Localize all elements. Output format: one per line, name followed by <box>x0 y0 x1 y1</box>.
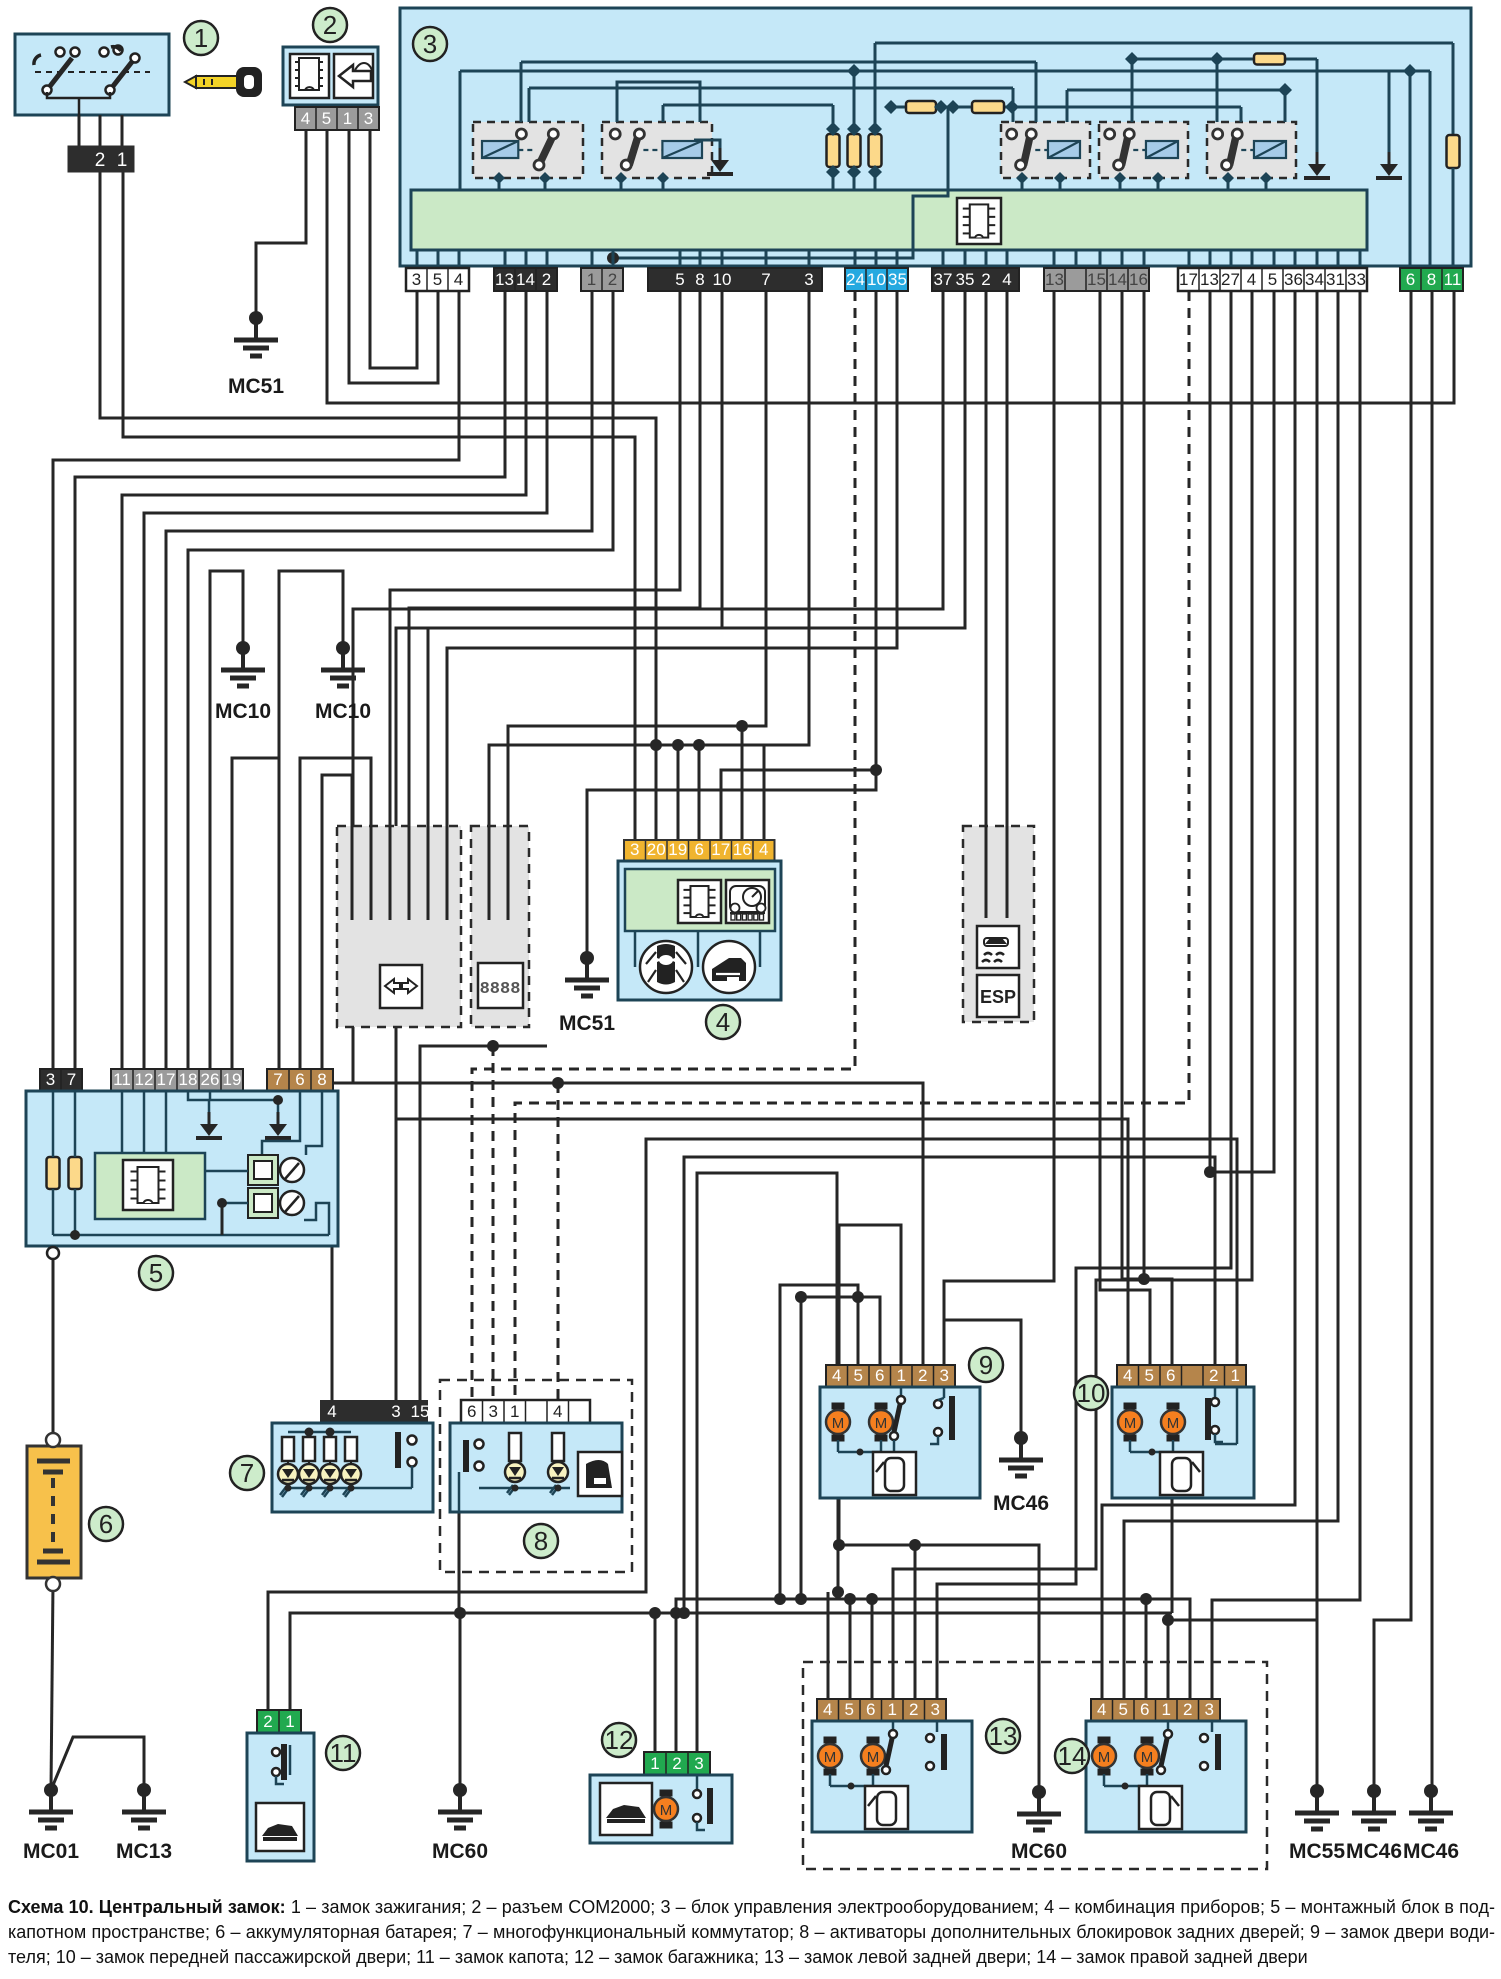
svg-text:8: 8 <box>317 1070 326 1089</box>
svg-text:14: 14 <box>1058 1741 1087 1771</box>
svg-text:13: 13 <box>989 1721 1018 1751</box>
svg-text:MC60: MC60 <box>1011 1840 1067 1863</box>
svg-text:MC46: MC46 <box>993 1492 1049 1515</box>
svg-text:6: 6 <box>1166 1366 1175 1385</box>
svg-text:14: 14 <box>516 270 535 289</box>
svg-text:2: 2 <box>981 270 990 289</box>
svg-text:5: 5 <box>854 1366 863 1385</box>
svg-text:4: 4 <box>1123 1366 1132 1385</box>
svg-text:MC10: MC10 <box>215 700 271 723</box>
svg-text:M: M <box>1124 1415 1137 1432</box>
svg-text:1: 1 <box>343 109 352 128</box>
svg-text:31: 31 <box>1326 270 1345 289</box>
svg-text:35: 35 <box>888 270 907 289</box>
svg-text:1: 1 <box>1162 1700 1171 1719</box>
svg-text:6: 6 <box>99 1509 113 1539</box>
svg-text:4: 4 <box>454 270 463 289</box>
svg-text:8888: 8888 <box>480 980 521 999</box>
svg-text:4: 4 <box>1247 270 1256 289</box>
svg-text:17: 17 <box>711 840 730 859</box>
svg-text:8: 8 <box>1427 270 1436 289</box>
svg-text:16: 16 <box>1129 270 1148 289</box>
svg-text:1: 1 <box>194 23 208 53</box>
svg-text:2: 2 <box>263 1712 272 1731</box>
svg-text:15: 15 <box>1087 270 1106 289</box>
svg-text:2: 2 <box>1209 1366 1218 1385</box>
svg-text:7: 7 <box>67 1070 76 1089</box>
svg-text:35: 35 <box>956 270 975 289</box>
svg-text:3: 3 <box>630 840 639 859</box>
svg-text:4: 4 <box>759 840 768 859</box>
svg-text:3: 3 <box>694 1754 703 1773</box>
svg-text:5: 5 <box>149 1258 163 1288</box>
svg-text:11: 11 <box>113 1070 131 1089</box>
svg-text:4: 4 <box>1002 270 1011 289</box>
svg-text:8: 8 <box>534 1526 548 1556</box>
svg-text:10: 10 <box>713 270 732 289</box>
svg-text:3: 3 <box>804 270 813 289</box>
svg-text:5: 5 <box>322 109 331 128</box>
svg-text:2: 2 <box>1183 1700 1192 1719</box>
svg-text:17: 17 <box>1179 270 1198 289</box>
svg-text:6: 6 <box>875 1366 884 1385</box>
svg-text:MC60: MC60 <box>432 1840 488 1863</box>
svg-text:34: 34 <box>1305 270 1324 289</box>
svg-text:10: 10 <box>867 270 886 289</box>
svg-text:13: 13 <box>1200 270 1219 289</box>
svg-text:6: 6 <box>295 1070 304 1089</box>
svg-text:12: 12 <box>135 1070 154 1089</box>
svg-text:3: 3 <box>46 1070 55 1089</box>
svg-text:1: 1 <box>650 1754 659 1773</box>
svg-text:MC51: MC51 <box>559 1012 615 1035</box>
svg-text:4: 4 <box>327 1402 336 1421</box>
svg-text:3: 3 <box>1205 1700 1214 1719</box>
svg-text:M: M <box>1098 1749 1111 1766</box>
svg-text:6: 6 <box>1140 1700 1149 1719</box>
svg-text:6: 6 <box>467 1402 476 1421</box>
svg-text:MC01: MC01 <box>23 1840 79 1863</box>
svg-text:3: 3 <box>412 270 421 289</box>
svg-text:MC55: MC55 <box>1289 1840 1345 1863</box>
svg-text:2: 2 <box>542 270 551 289</box>
svg-text:MC13: MC13 <box>116 1840 172 1863</box>
svg-text:M: M <box>824 1749 837 1766</box>
svg-text:3: 3 <box>931 1700 940 1719</box>
svg-text:18: 18 <box>179 1070 198 1089</box>
svg-text:MC51: MC51 <box>228 375 284 398</box>
svg-text:4: 4 <box>1097 1700 1106 1719</box>
svg-text:3: 3 <box>423 29 437 59</box>
svg-text:4: 4 <box>301 109 310 128</box>
svg-text:M: M <box>875 1415 888 1432</box>
svg-text:1: 1 <box>587 270 596 289</box>
svg-text:10: 10 <box>1077 1378 1106 1408</box>
svg-text:7: 7 <box>761 270 770 289</box>
svg-text:M: M <box>867 1749 880 1766</box>
svg-text:2: 2 <box>918 1366 927 1385</box>
svg-text:2: 2 <box>323 10 337 40</box>
svg-text:6: 6 <box>695 840 704 859</box>
svg-text:3: 3 <box>364 109 373 128</box>
svg-text:33: 33 <box>1347 270 1366 289</box>
svg-text:13: 13 <box>495 270 514 289</box>
svg-text:4: 4 <box>832 1366 841 1385</box>
svg-text:16: 16 <box>733 840 752 859</box>
svg-text:24: 24 <box>846 270 865 289</box>
svg-text:27: 27 <box>1221 270 1240 289</box>
svg-text:1: 1 <box>510 1402 519 1421</box>
svg-text:2: 2 <box>95 150 106 171</box>
svg-text:26: 26 <box>201 1070 220 1089</box>
svg-text:M: M <box>1167 1415 1180 1432</box>
svg-text:1: 1 <box>285 1712 294 1731</box>
svg-text:2: 2 <box>608 270 617 289</box>
svg-text:5: 5 <box>1145 1366 1154 1385</box>
svg-text:36: 36 <box>1284 270 1303 289</box>
svg-text:20: 20 <box>647 840 666 859</box>
svg-text:37: 37 <box>934 270 953 289</box>
svg-text:14: 14 <box>1108 270 1127 289</box>
svg-text:15: 15 <box>411 1402 430 1421</box>
svg-text:MC46: MC46 <box>1346 1840 1402 1863</box>
svg-text:7: 7 <box>240 1458 254 1488</box>
svg-text:6: 6 <box>866 1700 875 1719</box>
svg-text:6: 6 <box>1406 270 1415 289</box>
svg-text:5: 5 <box>675 270 684 289</box>
svg-text:2: 2 <box>672 1754 681 1773</box>
svg-text:3: 3 <box>391 1402 400 1421</box>
svg-text:4: 4 <box>823 1700 832 1719</box>
svg-text:4: 4 <box>716 1007 730 1037</box>
svg-text:3: 3 <box>940 1366 949 1385</box>
svg-text:2: 2 <box>909 1700 918 1719</box>
svg-text:17: 17 <box>157 1070 176 1089</box>
svg-text:5: 5 <box>1268 270 1277 289</box>
svg-text:19: 19 <box>223 1070 242 1089</box>
svg-text:5: 5 <box>1119 1700 1128 1719</box>
svg-text:M: M <box>1141 1749 1154 1766</box>
svg-text:8: 8 <box>695 270 704 289</box>
svg-text:12: 12 <box>605 1725 634 1755</box>
svg-text:11: 11 <box>330 1738 357 1768</box>
svg-text:1: 1 <box>897 1366 906 1385</box>
svg-text:11: 11 <box>1444 270 1462 289</box>
svg-text:5: 5 <box>845 1700 854 1719</box>
svg-text:M: M <box>660 1802 673 1819</box>
svg-text:5: 5 <box>433 270 442 289</box>
svg-text:4: 4 <box>553 1402 562 1421</box>
svg-text:7: 7 <box>273 1070 282 1089</box>
svg-text:3: 3 <box>489 1402 498 1421</box>
svg-text:19: 19 <box>668 840 687 859</box>
svg-text:9: 9 <box>979 1350 993 1380</box>
svg-text:1: 1 <box>117 150 128 171</box>
svg-text:M: M <box>832 1415 845 1432</box>
svg-text:13: 13 <box>1045 270 1064 289</box>
svg-text:MC10: MC10 <box>315 700 371 723</box>
svg-text:1: 1 <box>888 1700 897 1719</box>
svg-text:1: 1 <box>1231 1366 1240 1385</box>
svg-text:MC46: MC46 <box>1403 1840 1459 1863</box>
svg-text:ESP: ESP <box>980 987 1016 1007</box>
